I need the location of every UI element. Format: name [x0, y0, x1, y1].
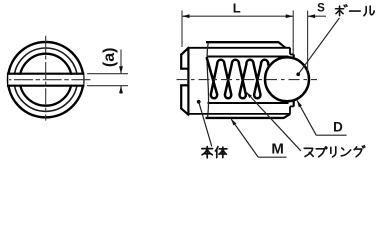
label glyph ボ	[336, 5, 347, 16]
right face upper segment	[293, 54, 295, 59]
dim s extension line at ball tip	[307, 11, 309, 72]
label glyph グ	[354, 146, 365, 157]
body leader dot	[197, 100, 201, 104]
label glyph ー	[350, 5, 361, 18]
label glyph ス	[304, 148, 313, 156]
thread crest bottom right chamfer	[284, 114, 290, 118]
slot upper edge	[7, 73, 85, 75]
svg-text:D: D	[333, 119, 343, 134]
front view horizontal centerline	[9, 79, 93, 81]
right lip step bottom vertical	[289, 106, 291, 114]
thread root line bottom	[188, 113, 290, 115]
dim (a) extension line upper	[87, 73, 128, 75]
slot notch upper edge	[180, 68, 188, 70]
label glyph 本	[202, 147, 213, 158]
right lip step top horizontal	[290, 53, 294, 55]
dim L left extension line	[181, 11, 183, 48]
thread crest line bottom	[206, 117, 285, 119]
ball leader line	[298, 18, 339, 75]
thread M underline	[258, 156, 286, 158]
front view chamfer circle	[14, 48, 77, 111]
thread root line top	[188, 47, 290, 49]
slot white band	[8, 75, 83, 85]
side view horizontal centerline	[177, 79, 318, 81]
bore wall bottom	[208, 102, 289, 104]
label glyph ル	[364, 6, 374, 16]
thread crest line top	[206, 41, 279, 43]
label glyph 体	[215, 147, 227, 158]
dim (a) extension line lower	[87, 85, 128, 87]
dim (a) line upper tail	[120, 50, 122, 74]
svg-text:(a): (a)	[101, 48, 118, 68]
front view bore circle	[20, 54, 72, 106]
body left face upper segment	[180, 54, 182, 70]
ball leader dot	[296, 72, 300, 76]
chamfer base vertical line	[187, 47, 189, 115]
dim L line	[182, 15, 293, 17]
partial-section break wavy line	[207, 43, 208, 118]
svg-text:L: L	[233, 1, 241, 16]
right lip step top vertical	[289, 48, 291, 55]
label glyph ン	[341, 148, 350, 156]
top-left chamfer	[181, 47, 190, 55]
ball	[265, 57, 309, 101]
slot notch lower edge	[180, 84, 188, 86]
spring coil	[207, 58, 275, 98]
body leader line	[199, 102, 212, 147]
plunger front view outer circle	[8, 42, 83, 117]
body left face lower segment	[180, 85, 182, 110]
bore wall top	[208, 55, 289, 57]
svg-text:S: S	[317, 3, 325, 15]
spring leader	[247, 93, 301, 151]
label glyph リ	[331, 147, 336, 157]
label glyph プ	[316, 147, 327, 157]
dim (a) line lower tail	[120, 86, 122, 94]
ball dia D leader	[297, 101, 316, 136]
dim L right extension line	[292, 11, 294, 54]
front view vertical centerline	[45, 36, 47, 121]
slot lower edge	[7, 85, 85, 87]
right lip step bottom horizontal	[290, 105, 294, 107]
ball dia D underline	[316, 134, 346, 136]
thread M leader	[231, 119, 258, 157]
right face lower segment	[293, 100, 295, 107]
bottom-left chamfer	[181, 108, 190, 116]
thread crest top right chamfer	[279, 42, 286, 48]
dim s tail with arrow	[308, 15, 326, 17]
svg-text:M: M	[271, 141, 284, 158]
